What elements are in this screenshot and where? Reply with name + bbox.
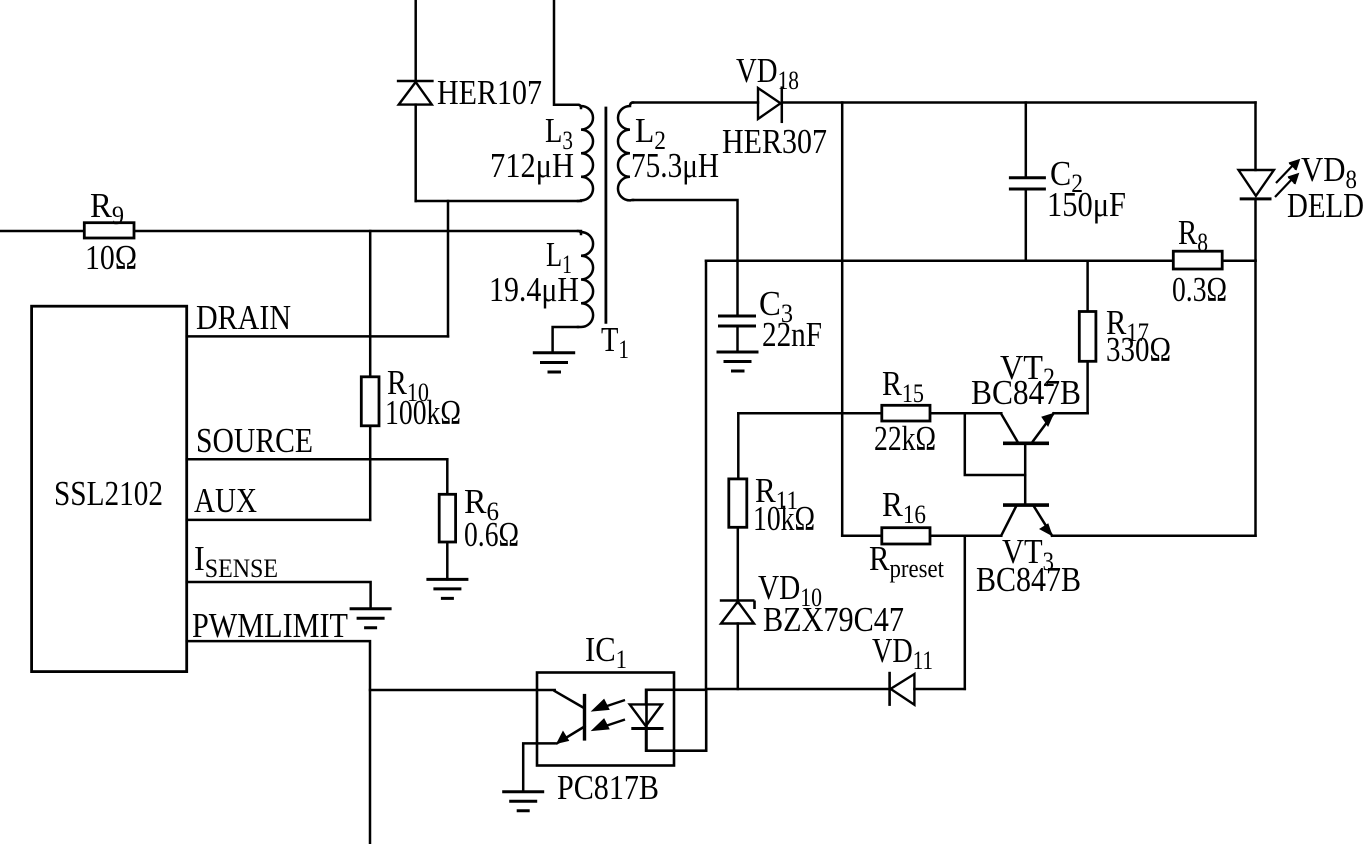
wire: AUX: [187, 519, 371, 522]
resistor R6: [439, 459, 519, 579]
svg-text:712μH: 712μH: [490, 146, 574, 185]
wire: ISENSE to ground: [187, 582, 371, 609]
opto LED box: [647, 690, 707, 751]
resistor R11: [729, 471, 815, 538]
svg-text:HER307: HER307: [722, 122, 827, 161]
svg-text:BC847B: BC847B: [976, 560, 1081, 599]
wire: input rail y=231 from left edge to L1: [0, 230, 581, 233]
svg-text:DRAIN: DRAIN: [196, 298, 291, 337]
wire: R16 wire y=535.8: [842, 535, 1001, 538]
resistor R10: [361, 231, 461, 520]
inductor L1 winding: [578, 231, 593, 327]
zener diode VD10: [720, 568, 904, 689]
wire: VT2 emitter to R17: [1054, 412, 1088, 415]
opto phototransistor: [523, 691, 584, 792]
svg-text:PC817B: PC817B: [557, 768, 659, 807]
ground under C3: [717, 352, 759, 371]
wire: DRAIN: [187, 335, 448, 338]
svg-text:SSL2102: SSL2102: [54, 474, 163, 513]
capacitor C3: [718, 284, 822, 354]
ground under L1: [533, 353, 575, 372]
svg-text:22kΩ: 22kΩ: [874, 419, 936, 458]
wire: PWMLIMIT down to bottom edge: [187, 641, 370, 844]
wire: vertical x=738 from R15 wire down to R11: [737, 413, 740, 479]
wire: junction vertical x=448 from L3-bottom wire to DRAIN wire: [447, 201, 450, 336]
svg-text:10Ω: 10Ω: [85, 238, 137, 277]
wire: vertical x=842 from top rail down to R16 wire: [841, 103, 844, 536]
wire: L3 bottom to HER107 lead: [416, 200, 581, 203]
svg-text:0.3Ω: 0.3Ω: [1172, 270, 1227, 309]
wire: VD11 rail y=689 from LED box to x=964.8: [706, 688, 965, 691]
svg-text:330Ω: 330Ω: [1106, 330, 1171, 369]
ground under R6: [426, 579, 468, 598]
svg-text:PWMLIMIT: PWMLIMIT: [192, 606, 348, 645]
wire: top rail from VD18 to right corner, down: [782, 101, 1256, 104]
svg-text:HER107: HER107: [437, 73, 542, 112]
wire: IC1 input from PWMLIMIT vertical: [370, 689, 555, 692]
svg-text:AUX: AUX: [194, 481, 257, 520]
diode HER107: [398, 73, 542, 201]
svg-text:100kΩ: 100kΩ: [385, 393, 461, 432]
transistor VT2 BC847B: [971, 348, 1081, 505]
svg-text:22nF: 22nF: [762, 315, 822, 354]
svg-text:SOURCE: SOURCE: [196, 421, 313, 460]
wire: mid rail y=260.8 from x=706 to right rail: [706, 260, 1256, 263]
ground at ISENSE: [350, 609, 392, 628]
wire: R11 to VD10: [737, 527, 740, 603]
transformer T1 core: [605, 107, 608, 324]
diode VD11: [872, 631, 933, 706]
wire: L2 bottom to C3: [633, 200, 738, 316]
opto LED: [630, 690, 664, 751]
wire: top rail y=102.5 from L2 to VD18: [633, 101, 758, 104]
inductor L2 winding: [618, 103, 633, 201]
wire: vertical x=964.8 from R16 wire down to VD11 wire: [964, 536, 967, 689]
wire: VT2 base-link vertical x=964.8 and horizontal y=475: [965, 413, 1025, 475]
transistor VT3 BC847B: [976, 505, 1081, 599]
wire: VT3 emitter to right rail: [1052, 535, 1256, 538]
capacitor C2: [1009, 103, 1126, 261]
inductor L3 winding: [578, 105, 593, 201]
resistor R8: [1172, 213, 1227, 309]
svg-text:75.3μH: 75.3μH: [631, 146, 719, 185]
opto light arrows: [592, 700, 625, 731]
LED VD8: [1239, 103, 1364, 261]
wire: vertical from top edge to HER107: [414, 0, 417, 81]
svg-text:DELD: DELD: [1287, 186, 1364, 225]
wire: vertical x=706 from mid rail down to opto LED box: [705, 261, 708, 690]
resistor R17: [1079, 261, 1171, 414]
ground under IC1: [502, 792, 544, 811]
resistor R9: [84, 223, 134, 238]
svg-text:150μF: 150μF: [1047, 185, 1126, 224]
svg-text:19.4μH: 19.4μH: [489, 270, 579, 309]
wire: SOURCE: [187, 458, 448, 461]
svg-text:10kΩ: 10kΩ: [753, 499, 815, 538]
optocoupler IC1 box: [537, 673, 674, 766]
wire: right rail from R8 junction down to VT3 emitter wire: [1254, 261, 1257, 536]
chip SSL2102 box: [32, 306, 187, 671]
wire: R15 wire y=413.3: [738, 412, 1001, 415]
wire: vertical from top edge to L3 top: [554, 0, 578, 105]
diode VD18: [722, 51, 827, 161]
wire: L1 bottom to ground: [553, 327, 578, 353]
svg-text:0.6Ω: 0.6Ω: [464, 515, 519, 554]
resistor R15: [874, 364, 936, 458]
resistor R16: [869, 485, 945, 583]
svg-text:BC847B: BC847B: [971, 373, 1081, 412]
